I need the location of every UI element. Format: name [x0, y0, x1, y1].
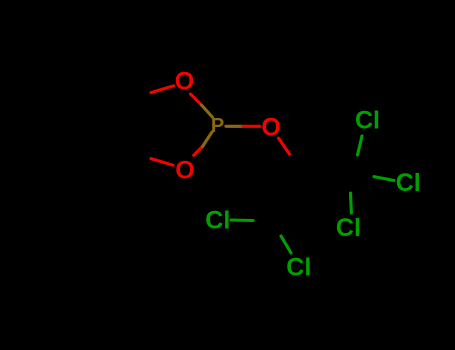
svg-text:Cl: Cl: [286, 254, 311, 282]
wire: bond CCl3-Cl(right) black half: [352, 173, 374, 176]
wire: bond C7a to O1 (carbon half, black): [131, 93, 151, 99]
wire: bond O(ester)-CH red half: [279, 138, 292, 156]
wire: bond CCl3-Cl(top) black half: [352, 155, 358, 173]
wire: bond CH-CHCl2 (black): [273, 175, 304, 220]
wire: bond O3-P olive half: [203, 132, 213, 147]
wire: bond P-O(ester) olive half: [226, 125, 243, 128]
svg-text:O: O: [175, 68, 194, 96]
wire: bond CHCl2-Cl(lower) black half: [273, 220, 281, 236]
wire: bond CCl3-Cl(right) green half: [374, 177, 394, 181]
wire: bond P-O(ester) red half: [243, 125, 260, 128]
svg-text:Cl: Cl: [205, 207, 230, 235]
wire: bond O(ester)-CH carbon half (black): [291, 156, 304, 174]
svg-text:Cl: Cl: [336, 214, 361, 242]
wire: bond C3a-O3 red half: [151, 159, 173, 166]
wire: bond C7a-O1 red half: [151, 86, 174, 93]
wire: bond CCl3-Cl(bottom) black half: [351, 173, 353, 193]
svg-text:O: O: [261, 113, 280, 141]
benzene ring (carbon skeleton, black on black): [36, 70, 131, 177]
svg-text:O: O: [175, 157, 194, 185]
wire: bond O1-P olive half: [202, 105, 213, 117]
wire: bond CCl3-Cl(top) green half: [358, 136, 363, 155]
wire: bond CHCl2-Cl(lower) green half: [281, 236, 291, 253]
wire: bond O1-P red half: [191, 94, 202, 105]
wire: bond CHCl2-Cl(left) green half: [231, 218, 253, 222]
wire: bond CHCl2-Cl(left) black half: [253, 218, 273, 222]
svg-text:P: P: [211, 115, 224, 137]
wire: bond CCl3-Cl(bottom) green half: [349, 193, 353, 213]
svg-text:Cl: Cl: [355, 107, 380, 135]
svg-text:Cl: Cl: [396, 169, 421, 197]
wire: bond O3-P red half: [194, 147, 203, 156]
wire: bond CH-CCl3 (black): [304, 173, 352, 174]
wire: bond C3a to O3 (carbon half, black): [129, 152, 151, 159]
